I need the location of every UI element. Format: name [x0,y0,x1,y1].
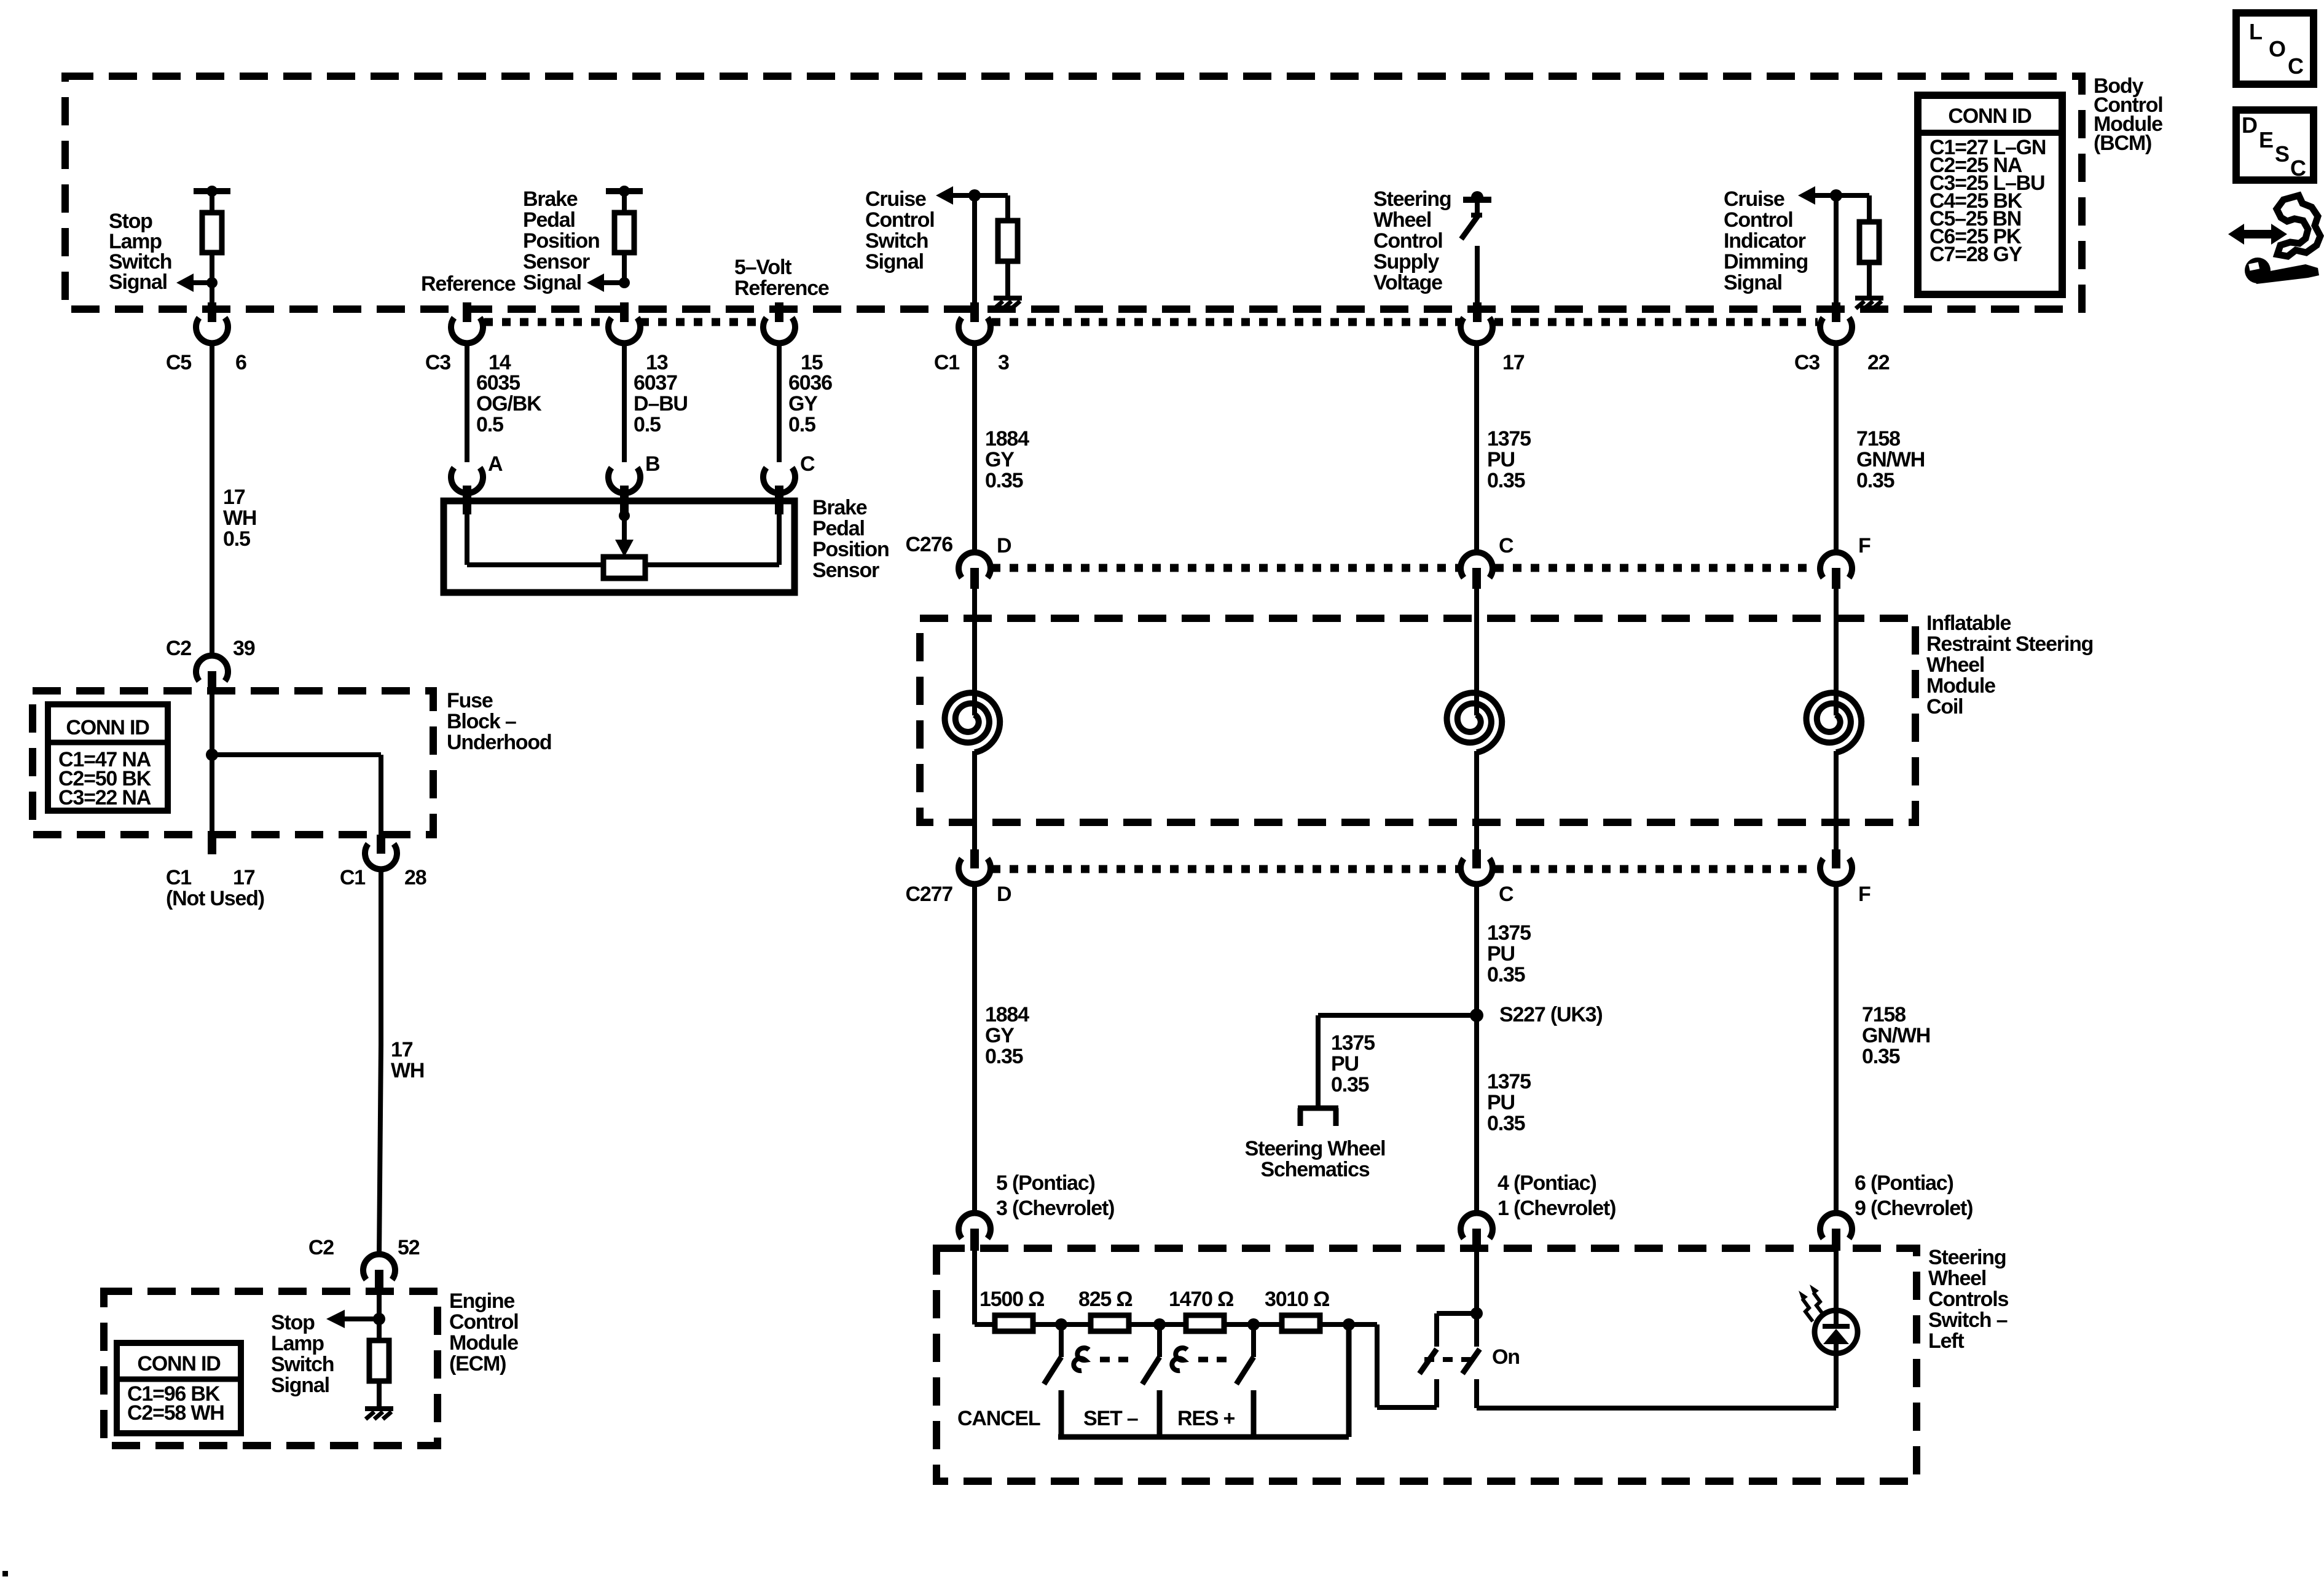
junction dot after 1470 [1247,1318,1260,1331]
junction dot [968,189,981,202]
SET switch [1157,1324,1162,1357]
connector into steering wheel controls switch [1461,1213,1493,1238]
dotted connector row line [992,318,1460,326]
wire to pull-up resistor [975,193,1008,198]
svg-text:Pedal: Pedal [523,208,575,232]
clockspring coil [1807,693,1862,752]
ground in ECM [365,1406,393,1411]
wire [1834,195,1839,321]
wire [210,191,214,283]
svg-text:6 (Pontiac): 6 (Pontiac) [1855,1171,1953,1195]
svg-text:17: 17 [391,1038,413,1061]
svg-text:1375: 1375 [1331,1031,1375,1055]
svg-text:0.35: 0.35 [1487,963,1525,986]
sensor internal wire C [777,504,782,565]
wire 1884 GY 0.35 lower [972,883,977,1214]
svg-text:WH: WH [223,506,256,530]
connector into steering wheel controls switch [1820,1213,1852,1238]
svg-text:C5: C5 [166,351,191,374]
svg-text:F: F [1858,534,1871,557]
wire 7158 GN/WH 0.35 upper [1834,342,1839,552]
svg-text:D: D [2242,112,2257,138]
linkage to SET switch [1074,1348,1089,1371]
svg-text:3010 Ω: 3010 Ω [1265,1288,1329,1311]
junction dot [1471,191,1483,203]
wire 1375 PU 0.35 below C277 [1474,883,1479,1214]
Engine Control Module (ECM) dashed box [104,1291,438,1446]
LED cathode bar [1823,1324,1850,1329]
wire inside fuse block [210,695,214,835]
svg-text:17: 17 [1502,351,1525,374]
svg-text:Underhood: Underhood [447,731,552,754]
switch fixed contact wire [1475,246,1480,321]
sensor connector C [763,468,795,493]
wire into On switch [1474,1251,1479,1313]
connector C277 F [1832,849,1840,868]
wire to ground [1867,262,1872,297]
svg-text:Wheel: Wheel [1926,653,1984,677]
sensor connector B [608,468,640,493]
CANCEL switch [1059,1324,1064,1357]
svg-text:C2=58 WH: C2=58 WH [127,1401,224,1425]
clockspring coil [945,693,1000,752]
wire to pull-up resistor [1836,193,1869,198]
Fuse Block CONN ID table [48,704,168,811]
Fuse Block - Underhood dashed box [33,691,433,835]
wire into coil [1474,589,1479,715]
svg-text:C: C [2290,155,2306,181]
stub C1 17 not used [208,835,216,854]
connector C2 pin 52 (ECM) [363,1254,395,1280]
svg-text:6: 6 [235,351,246,374]
svg-text:C1: C1 [934,351,959,374]
svg-text:S227 (UK3): S227 (UK3) [1499,1003,1603,1026]
svg-text:C2: C2 [308,1236,334,1259]
connector C276 F [1820,553,1852,578]
svg-text:SET –: SET – [1083,1407,1138,1430]
svg-text:RES +: RES + [1177,1407,1235,1430]
splice S227 (UK3) [1470,1009,1483,1022]
svg-text:0.35: 0.35 [1487,469,1525,492]
svg-text:GY: GY [985,448,1015,471]
clockspring coil [1447,693,1502,752]
junction dot [1830,189,1842,202]
svg-text:Block –: Block – [447,710,516,733]
Brake Pedal Position Sensor box [444,501,795,592]
svg-text:D: D [997,883,1011,906]
svg-text:3: 3 [998,351,1009,374]
cruise indicator LED circle [1815,1310,1858,1353]
svg-text:Voltage: Voltage [1373,271,1442,294]
svg-text:1884: 1884 [985,1003,1029,1026]
resistor in BCM (cruise switch) [998,221,1018,261]
svg-text:1470 Ω: 1470 Ω [1169,1288,1233,1311]
LED anode triangle [1823,1329,1849,1344]
svg-text:Control: Control [449,1310,518,1334]
svg-text:C: C [800,452,815,476]
junction dot [373,1313,385,1325]
connector C277 D [970,849,979,868]
wire through BCM edge [210,283,214,321]
junction dot [206,749,218,761]
svg-text:GY: GY [985,1024,1015,1047]
svg-text:0.35: 0.35 [985,1045,1023,1068]
svg-text:Cruise: Cruise [865,187,926,211]
svg-text:Inflatable: Inflatable [1926,612,2011,635]
svg-text:Sensor: Sensor [523,250,590,274]
svg-text:PU: PU [1487,942,1515,966]
resistor in BCM (stop lamp pull-up) [202,213,222,253]
svg-text:GN/WH: GN/WH [1862,1024,1930,1047]
svg-text:C2: C2 [166,637,191,660]
dotted connector row line [484,318,608,326]
dotted connector row line C276 [992,564,1459,572]
arrow to Brake Pedal Position Sensor Signal [602,280,624,285]
wire 6036 GY 0.5 [777,342,782,462]
sensor wiper junction dot [619,510,630,521]
svg-text:0.35: 0.35 [985,469,1023,492]
svg-text:1375: 1375 [1487,1070,1531,1093]
svg-text:39: 39 [233,637,255,660]
svg-text:C3: C3 [1794,351,1820,374]
LOC legend box [2236,13,2314,84]
svg-text:Module: Module [1926,674,1995,698]
switch frame contacts [1059,1390,1064,1437]
svg-text:6035: 6035 [476,371,520,395]
svg-text:0.35: 0.35 [1331,1073,1369,1096]
svg-text:C277: C277 [906,883,953,906]
svg-text:5 (Pontiac): 5 (Pontiac) [996,1171,1095,1195]
On switch blades [1419,1349,1437,1374]
svg-text:Control: Control [1724,208,1792,232]
svg-text:Dimming: Dimming [1724,250,1808,274]
svg-text:PU: PU [1487,1091,1515,1114]
junction dot [206,277,218,288]
svg-text:Control: Control [1373,229,1442,253]
svg-text:C276: C276 [906,533,953,556]
junction dot [619,277,630,288]
connector pin 14 (BCM C3) [463,302,471,322]
wire in ECM [377,1294,382,1407]
svg-text:28: 28 [404,866,426,889]
svg-text:Brake: Brake [812,496,867,519]
wire 6035 OG/BK 0.5 [465,342,469,462]
junction dot after 825 [1153,1318,1166,1331]
wire 7158 GN/WH 0.35 lower [1834,883,1839,1214]
svg-text:Engine: Engine [449,1289,514,1313]
svg-text:PU: PU [1487,448,1515,471]
svg-text:5–Volt: 5–Volt [734,256,791,279]
svg-text:F: F [1858,883,1871,906]
svg-text:C1: C1 [340,866,365,889]
svg-text:Reference: Reference [734,277,829,300]
DESC legend box [2236,110,2314,180]
Steering Wheel Controls Switch - Left dashed box [936,1248,1917,1481]
RES switch [1251,1324,1256,1357]
wire out of coil [972,751,977,849]
resistor in BCM (indicator dimming) [1859,222,1879,262]
svg-text:CONN ID: CONN ID [137,1352,221,1375]
svg-text:C3=22 NA: C3=22 NA [58,786,151,809]
BCM CONN ID table [1918,95,2062,294]
wire into coil [972,589,977,715]
svg-text:Left: Left [1928,1329,1964,1353]
connector C276 C [1461,553,1493,578]
svg-text:Signal: Signal [109,270,167,294]
svg-text:Switch: Switch [271,1353,334,1376]
svg-text:1 (Chevrolet): 1 (Chevrolet) [1498,1197,1615,1220]
svg-text:Restraint Steering: Restraint Steering [1926,632,2093,656]
ground (BCM indicator) [1855,296,1883,301]
svg-text:Sensor: Sensor [812,559,879,582]
svg-text:Module: Module [449,1331,518,1355]
wiper arrow [622,516,627,542]
wire from bus to On switch [1375,1324,1380,1407]
potentiometer element [603,557,645,578]
arrow to Cruise Control Switch Signal [951,193,975,198]
svg-text:On: On [1492,1345,1520,1369]
wire into LED [1834,1251,1839,1312]
svg-text:CONN ID: CONN ID [1948,104,2032,128]
wire 17 WH to ECM [379,868,383,1045]
svg-text:S: S [2275,141,2289,167]
On switch right post [1474,1313,1479,1347]
connector C1 pin 28 [377,835,385,854]
resistor chain bus [975,1322,1377,1327]
junction dot after 1500 [1055,1318,1067,1331]
svg-text:17: 17 [223,486,245,509]
connector C3 pin 22 [1820,318,1852,343]
svg-text:C7=28 GY: C7=28 GY [1929,243,2023,266]
svg-text:D–BU: D–BU [634,392,688,415]
svg-text:Stop: Stop [271,1311,315,1334]
switch bottom return bar [1058,1434,1349,1440]
connector pin 17 [1461,318,1493,343]
svg-text:Steering: Steering [1928,1246,2006,1269]
svg-text:Signal: Signal [865,250,924,274]
svg-text:Position: Position [523,229,600,253]
off-page connector symbol [1298,1106,1338,1111]
svg-text:CONN ID: CONN ID [66,716,149,739]
svg-text:0.5: 0.5 [788,413,815,436]
svg-text:0.35: 0.35 [1487,1112,1525,1135]
svg-text:A: A [488,452,503,476]
svg-text:Schematics: Schematics [1261,1158,1370,1181]
svg-text:C: C [2288,53,2304,79]
svg-text:1375: 1375 [1487,921,1531,945]
ECM CONN ID table [117,1343,241,1433]
svg-text:0.35: 0.35 [1862,1045,1900,1068]
junction dot On switch [1470,1307,1483,1320]
svg-text:C: C [1499,534,1513,557]
arrow to Cruise Control Indicator Dimming Signal [1813,193,1836,198]
svg-text:6036: 6036 [788,371,832,395]
svg-text:C: C [1499,883,1513,906]
linkage to RES switch [1172,1348,1187,1371]
svg-text:22: 22 [1867,351,1890,374]
resistor in ECM [369,1340,389,1381]
svg-text:Steering Wheel: Steering Wheel [1245,1137,1386,1160]
svg-text:(BCM): (BCM) [2094,132,2151,155]
svg-text:B: B [645,452,660,476]
ground (BCM cruise switch) [994,296,1022,301]
switch blade (supply voltage) [1475,200,1480,214]
svg-text:3 (Chevrolet): 3 (Chevrolet) [996,1197,1114,1220]
connector C2 pin 39 (fuse block) [196,656,228,681]
svg-text:0.35: 0.35 [1856,469,1894,492]
wire 1375 PU 0.35 upper [1474,342,1479,552]
svg-text:Coil: Coil [1926,695,1963,718]
wire from On switch to LED [1477,1406,1836,1411]
svg-text:OG/BK: OG/BK [476,392,542,415]
wire to ground [1005,261,1010,297]
svg-text:(ECM): (ECM) [449,1352,506,1375]
svg-text:6037: 6037 [634,371,677,395]
svg-text:7158: 7158 [1856,427,1900,451]
LED light arrows [1802,1299,1813,1321]
svg-text:WH: WH [391,1059,424,1082]
svg-text:Pedal: Pedal [812,517,865,540]
svg-text:C3: C3 [425,351,450,374]
connector C1 pin 3 [959,318,991,343]
svg-text:Supply: Supply [1373,250,1439,274]
connector into steering wheel controls switch [959,1213,991,1238]
wire out of coil [1474,751,1479,849]
Inflatable Restraint Steering Wheel Module Coil dashed box [920,618,1915,822]
svg-text:Reference: Reference [421,272,516,296]
svg-text:PU: PU [1331,1052,1359,1076]
svg-text:4 (Pontiac): 4 (Pontiac) [1498,1171,1596,1195]
svg-text:L: L [2249,19,2262,44]
svg-text:Wheel: Wheel [1373,208,1431,232]
connector pin 15 (BCM C3) [775,302,783,322]
sensor connector A [451,468,483,493]
svg-text:Signal: Signal [271,1374,329,1397]
svg-text:Cruise: Cruise [1724,187,1784,211]
svg-text:825 Ω: 825 Ω [1078,1288,1132,1311]
dotted connector row line C277 [992,865,1459,873]
svg-text:GN/WH: GN/WH [1856,448,1925,471]
svg-text:1375: 1375 [1487,427,1531,451]
svg-text:Lamp: Lamp [271,1332,324,1355]
branch wire to steering wheel schematics [1318,1013,1477,1018]
svg-text:(Not Used): (Not Used) [166,887,264,910]
svg-text:17: 17 [233,866,255,889]
svg-text:Switch: Switch [865,229,928,253]
arrow to Stop Lamp Switch Signal [191,280,212,285]
service wrench icon [2228,224,2287,245]
svg-text:Switch –: Switch – [1928,1308,2008,1332]
svg-text:Brake: Brake [523,187,578,211]
svg-text:1500 Ω: 1500 Ω [979,1288,1044,1311]
svg-text:Controls: Controls [1928,1288,2008,1311]
BCM internal rail for stop lamp switch signal [194,188,230,194]
connector C277 C [1472,849,1481,868]
svg-text:Signal: Signal [1724,271,1782,294]
BCM internal rail [1463,197,1491,203]
svg-text:0.5: 0.5 [634,413,661,436]
svg-text:Steering: Steering [1373,187,1451,211]
sensor internal wire A [465,504,469,565]
svg-text:Signal: Signal [523,271,581,294]
wire 6037 D-BU 0.5 [622,342,627,462]
connector C5 pin 6 [196,318,228,343]
svg-text:0.5: 0.5 [476,413,503,436]
On switch linkage [1424,1357,1472,1362]
svg-text:52: 52 [398,1236,420,1259]
page mark [2,1571,8,1576]
BCM internal rail for brake pedal signal [606,188,643,194]
svg-text:Indicator: Indicator [1724,229,1806,253]
resistor in BCM (brake pedal signal) [614,213,634,253]
wire 1884 GY 0.35 upper [972,342,977,552]
svg-text:Position: Position [812,538,889,561]
Body Control Module (BCM) dashed box [65,76,2082,309]
junction dot after 3010 [1343,1318,1355,1331]
wire 17 WH 0.5 [210,342,214,657]
connector pin 13 (BCM C3) [620,302,629,322]
svg-text:C1: C1 [166,866,191,889]
svg-text:E: E [2259,127,2273,152]
wire [972,195,977,321]
connector C276 D [959,553,991,578]
svg-text:9 (Chevrolet): 9 (Chevrolet) [1855,1197,1973,1220]
wire into coil [1834,589,1839,715]
svg-text:7158: 7158 [1862,1003,1906,1026]
arrow to Stop Lamp Switch Signal (ECM) [342,1316,379,1321]
svg-text:Wheel: Wheel [1928,1267,1986,1290]
wire into resistor chain [972,1251,977,1324]
svg-text:D: D [997,534,1011,557]
svg-text:0.5: 0.5 [223,527,250,551]
svg-text:GY: GY [788,392,818,415]
wire out of coil [1834,751,1839,849]
svg-text:Control: Control [865,208,934,232]
svg-text:CANCEL: CANCEL [957,1407,1040,1430]
svg-text:Fuse: Fuse [447,689,493,712]
junction dot [206,186,218,197]
wire branch to C1 28 [212,752,381,757]
svg-text:O: O [2269,36,2285,61]
svg-text:1884: 1884 [985,427,1029,451]
